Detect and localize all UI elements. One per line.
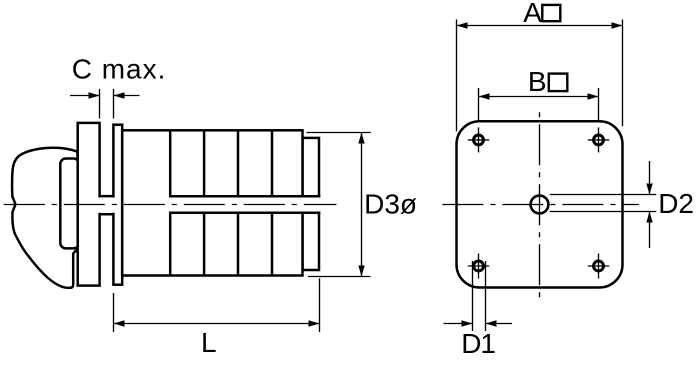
section line v4	[271, 130, 274, 275]
A dimension	[457, 20, 623, 132]
switch body	[122, 130, 302, 275]
svg-text:D1: D1	[461, 328, 495, 359]
knob (side view)	[12, 148, 77, 288]
svg-text:B: B	[528, 66, 547, 97]
mounting plate front view	[457, 121, 623, 287]
C max. dimension	[70, 89, 140, 119]
svg-text:D2: D2	[658, 188, 694, 219]
svg-text:L: L	[201, 327, 217, 358]
erase plate edges in bushing zone	[98, 198, 115, 213]
front view horizontal centerline	[442, 204, 638, 206]
section line v3	[237, 130, 240, 275]
L dimension	[114, 278, 320, 332]
front view vertical centerline	[539, 107, 541, 303]
section line v1	[169, 130, 172, 275]
center hole	[531, 196, 549, 214]
plate 2 (mounting face)	[113, 125, 122, 285]
B dimension	[479, 88, 599, 121]
corner hole top-right	[594, 135, 604, 145]
corner hole bottom-left	[474, 261, 484, 271]
rear small section	[303, 138, 320, 270]
knob collar	[60, 159, 79, 249]
svg-text:A: A	[523, 0, 542, 28]
corner hole top-left	[474, 135, 484, 145]
svg-text:C max.: C max.	[72, 54, 167, 85]
section line v2	[203, 130, 206, 275]
side centerline	[4, 204, 337, 206]
D1 dimension	[444, 261, 513, 331]
erase slot interior	[169, 195, 322, 214]
D3 dimension	[307, 133, 371, 277]
corner hole bottom-right	[594, 261, 604, 271]
D2 dimension	[550, 161, 657, 248]
svg-text:D3ø: D3ø	[364, 188, 417, 219]
front plate 1 (nut plate)	[78, 123, 100, 286]
slot top line	[169, 195, 320, 198]
slot bottom line	[169, 212, 320, 215]
bushing between plates	[98, 195, 114, 198]
